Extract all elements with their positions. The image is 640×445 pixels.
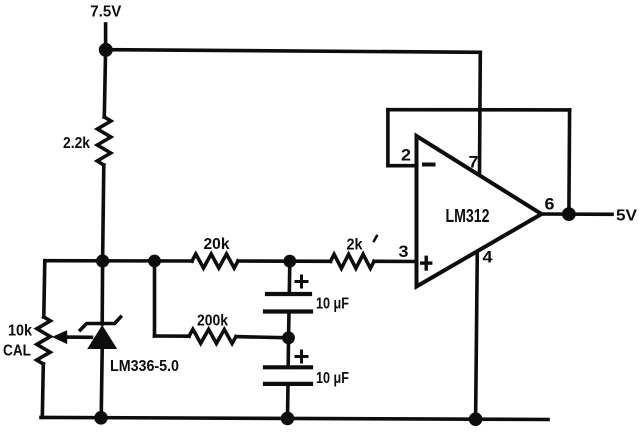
svg-text:2k: 2k [347,237,363,254]
op-amp minus sign [424,163,434,167]
wire cap2 bottom lead [286,384,290,418]
capacitor C1 10uF plates [265,294,311,312]
svg-text:7.5V: 7.5V [90,4,121,21]
svg-text:LM312: LM312 [446,206,490,226]
resistor 200k [189,329,236,343]
svg-text:5V: 5V [616,208,637,225]
svg-text:4: 4 [483,248,494,267]
node ground cap junction [281,412,295,426]
wire feedback box left [386,110,390,166]
node output junction [562,207,576,221]
wire cap2 top lead [286,338,290,368]
svg-text:10k: 10k [8,323,32,340]
zener diode LM336-5.0 cathode bar [80,317,120,330]
svg-text:200k: 200k [197,313,228,330]
resistor 20k [192,254,238,268]
wire 200k branch vertical [153,261,157,336]
svg-text:7: 7 [469,153,479,172]
zener wire lower [101,349,102,418]
wire left branch lower [103,165,104,261]
wire feedback box top [388,108,570,112]
node 200k tap junction [148,255,161,268]
wire feedback box right [567,110,571,214]
zener diode anode triangle [87,325,117,349]
wire reference row [45,259,192,263]
capacitor C2 plus sign [296,351,307,362]
wire cap1 top lead [287,261,291,294]
resistor 2k [331,254,375,268]
wire top rail [106,50,481,53]
zener wire upper [100,261,104,324]
svg-text:10 μF: 10 μF [316,370,349,387]
stray tick mark [374,236,377,241]
potentiometer 10k CAL [37,317,51,364]
capacitor C2 10uF plates [265,367,311,384]
svg-text:LM336-5.0: LM336-5.0 [110,358,179,375]
wire ground rail [41,417,548,419]
wire 20k to cap tap [238,259,331,263]
wire pot branch top [44,261,45,317]
svg-text:20k: 20k [204,236,230,253]
wire supply stub [104,24,108,50]
svg-text:2: 2 [401,146,411,165]
svg-text:3: 3 [399,242,409,261]
wire V+ rail down to pin 7 [478,52,482,173]
node ground left junction [94,411,108,425]
wire cap1 bottom lead [287,312,291,338]
wire 200k branch horizontal [155,334,190,338]
node mid cap junction [282,331,295,344]
wire output [542,212,613,216]
resistor 2.2k [97,117,111,165]
node cap tap junction [283,255,296,268]
svg-text:CAL: CAL [3,343,31,360]
op-amp plus sign [422,257,431,269]
wire pot branch bottom [42,364,43,417]
node ground pin4 junction [469,412,483,426]
wire 2k to pin 3 [374,259,417,263]
wire 200k to cap junction [236,337,289,338]
wire pin 4 down [476,251,478,419]
op-amp U1 LM312 triangle [417,136,542,287]
svg-text:10 μF: 10 μF [316,296,349,313]
node main left junction [96,254,109,267]
svg-text:2.2k: 2.2k [63,135,90,152]
node top junction [99,43,113,57]
wiper arrow to pot [52,330,92,344]
svg-text:6: 6 [545,195,555,214]
capacitor C1 plus sign [296,276,307,287]
wire left branch upper [104,50,105,117]
wire pin 2 stub [388,164,417,168]
